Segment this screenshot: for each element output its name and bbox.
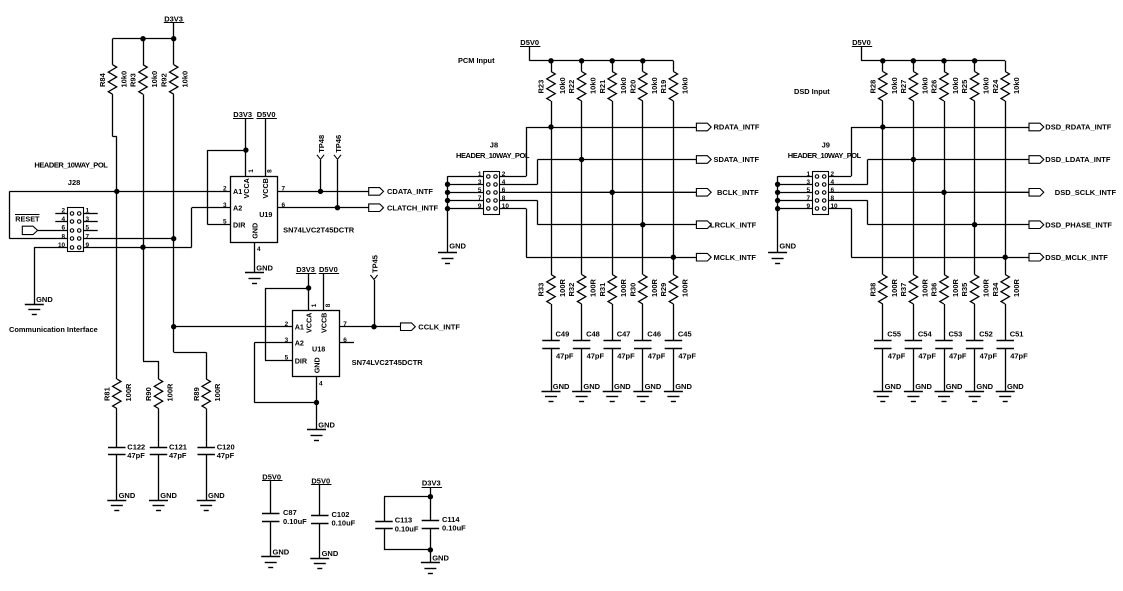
svg-text:A1: A1 — [295, 322, 304, 331]
svg-text:GND: GND — [553, 382, 570, 391]
svg-text:TP48: TP48 — [317, 135, 326, 153]
svg-text:C47: C47 — [617, 330, 631, 339]
svg-text:GND: GND — [885, 382, 902, 391]
svg-text:100R: 100R — [1012, 278, 1021, 297]
svg-text:SN74LVC2T45DCTR: SN74LVC2T45DCTR — [352, 358, 424, 367]
svg-text:GND: GND — [449, 242, 466, 251]
svg-text:RDATA_INTF: RDATA_INTF — [714, 123, 760, 132]
svg-text:D3V3: D3V3 — [233, 110, 252, 119]
svg-text:CCLK_INTF: CCLK_INTF — [418, 322, 460, 331]
svg-text:GND: GND — [583, 382, 600, 391]
svg-text:DSD_MCLK_INTF: DSD_MCLK_INTF — [1045, 253, 1108, 262]
svg-text:VCCB: VCCB — [319, 313, 328, 333]
svg-text:R31: R31 — [598, 283, 607, 297]
svg-text:DSD_LDATA_INTF: DSD_LDATA_INTF — [1045, 155, 1111, 164]
svg-text:100R: 100R — [650, 278, 659, 297]
svg-text:47pF: 47pF — [1010, 352, 1028, 361]
svg-text:C120: C120 — [217, 442, 235, 451]
svg-text:5: 5 — [223, 219, 227, 226]
svg-text:CDATA_INTF: CDATA_INTF — [387, 187, 433, 196]
svg-text:GND: GND — [256, 264, 273, 273]
svg-text:10k0: 10k0 — [951, 77, 960, 94]
svg-text:R38: R38 — [868, 283, 877, 297]
svg-text:D5V0: D5V0 — [520, 38, 539, 47]
svg-text:PCM Input: PCM Input — [458, 56, 495, 65]
svg-text:R21: R21 — [598, 80, 607, 94]
svg-text:Communication Interface: Communication Interface — [9, 325, 98, 334]
svg-text:4: 4 — [319, 380, 323, 387]
svg-text:GND: GND — [322, 549, 339, 558]
svg-text:10k0: 10k0 — [181, 71, 190, 88]
svg-text:SDATA_INTF: SDATA_INTF — [714, 155, 760, 164]
svg-text:GND: GND — [119, 491, 136, 500]
svg-text:GND: GND — [208, 491, 225, 500]
svg-text:R34: R34 — [991, 282, 1000, 297]
svg-text:VCCB: VCCB — [261, 178, 270, 198]
svg-text:D5V0: D5V0 — [257, 110, 276, 119]
svg-text:47pF: 47pF — [980, 352, 998, 361]
svg-text:R29: R29 — [659, 283, 668, 297]
svg-text:R89: R89 — [192, 387, 201, 401]
svg-text:DSD_RDATA_INTF: DSD_RDATA_INTF — [1045, 123, 1111, 132]
svg-text:100R: 100R — [589, 278, 598, 297]
svg-text:J9: J9 — [822, 141, 830, 150]
svg-text:0.10uF: 0.10uF — [332, 519, 356, 528]
svg-text:1: 1 — [311, 303, 318, 307]
svg-text:C53: C53 — [949, 330, 963, 339]
svg-text:47pF: 47pF — [556, 352, 574, 361]
svg-text:10k0: 10k0 — [619, 77, 628, 94]
svg-text:R27: R27 — [899, 80, 908, 94]
svg-text:R23: R23 — [537, 80, 546, 94]
svg-text:C45: C45 — [678, 330, 692, 339]
svg-text:10k0: 10k0 — [558, 77, 567, 94]
svg-text:TP45: TP45 — [370, 255, 379, 273]
svg-text:C87: C87 — [283, 508, 297, 517]
svg-text:47pF: 47pF — [888, 352, 906, 361]
svg-text:HEADER_10WAY_POL: HEADER_10WAY_POL — [788, 151, 862, 160]
svg-text:DIR: DIR — [295, 356, 308, 365]
svg-text:C55: C55 — [887, 330, 901, 339]
svg-text:BCLK_INTF: BCLK_INTF — [717, 188, 759, 197]
svg-text:GND: GND — [915, 382, 932, 391]
svg-text:7: 7 — [86, 233, 90, 240]
svg-text:0.10uF: 0.10uF — [283, 517, 307, 526]
svg-text:J28: J28 — [68, 178, 81, 187]
svg-text:GND: GND — [312, 357, 321, 373]
svg-text:10k0: 10k0 — [920, 77, 929, 94]
svg-text:47pF: 47pF — [587, 352, 605, 361]
svg-text:D3V3: D3V3 — [422, 479, 441, 488]
svg-text:C46: C46 — [647, 330, 661, 339]
svg-text:0.10uF: 0.10uF — [395, 524, 419, 533]
svg-text:10k0: 10k0 — [982, 77, 991, 94]
svg-text:10k0: 10k0 — [890, 77, 899, 94]
svg-text:TP46: TP46 — [334, 135, 343, 153]
svg-text:LRCLK_INTF: LRCLK_INTF — [710, 220, 757, 229]
svg-text:HEADER_10WAY_POL: HEADER_10WAY_POL — [34, 161, 108, 170]
svg-text:47pF: 47pF — [678, 352, 696, 361]
svg-text:5: 5 — [285, 355, 289, 362]
svg-text:GND: GND — [976, 382, 993, 391]
svg-text:100R: 100R — [951, 278, 960, 297]
svg-text:47pF: 47pF — [949, 352, 967, 361]
svg-text:C52: C52 — [979, 330, 993, 339]
svg-text:47pF: 47pF — [217, 451, 235, 460]
svg-text:R20: R20 — [628, 80, 637, 94]
svg-text:C121: C121 — [169, 442, 187, 451]
svg-text:R25: R25 — [960, 80, 969, 94]
svg-text:47pF: 47pF — [127, 451, 145, 460]
svg-text:D5V0: D5V0 — [852, 38, 871, 47]
svg-text:DIR: DIR — [233, 220, 246, 229]
svg-text:R36: R36 — [930, 283, 939, 297]
svg-text:A2: A2 — [233, 203, 242, 212]
svg-text:RESET: RESET — [15, 214, 40, 223]
svg-text:R24: R24 — [991, 79, 1000, 94]
svg-text:C51: C51 — [1010, 330, 1024, 339]
svg-text:R90: R90 — [144, 387, 153, 401]
svg-text:10k0: 10k0 — [120, 71, 129, 88]
svg-text:100R: 100R — [680, 278, 689, 297]
svg-text:GND: GND — [432, 554, 449, 563]
svg-text:47pF: 47pF — [918, 352, 936, 361]
svg-text:GND: GND — [273, 548, 290, 557]
svg-text:C102: C102 — [332, 510, 350, 519]
svg-text:DSD Input: DSD Input — [794, 87, 830, 96]
svg-text:GND: GND — [250, 223, 259, 239]
svg-text:R22: R22 — [567, 80, 576, 94]
svg-text:100R: 100R — [982, 278, 991, 297]
svg-text:SN74LVC2T45DCTR: SN74LVC2T45DCTR — [283, 226, 355, 235]
svg-text:GND: GND — [946, 382, 963, 391]
svg-text:GND: GND — [318, 421, 335, 430]
svg-text:C48: C48 — [586, 330, 600, 339]
svg-text:R30: R30 — [628, 283, 637, 297]
svg-text:A1: A1 — [233, 187, 242, 196]
svg-text:8: 8 — [325, 303, 332, 307]
svg-text:HEADER_10WAY_POL: HEADER_10WAY_POL — [456, 151, 530, 160]
svg-text:C113: C113 — [395, 516, 413, 525]
svg-text:D3V3: D3V3 — [296, 265, 315, 274]
svg-text:GND: GND — [779, 242, 796, 251]
svg-text:MCLK_INTF: MCLK_INTF — [714, 253, 757, 262]
svg-text:47pF: 47pF — [169, 451, 187, 460]
svg-text:100R: 100R — [213, 383, 222, 402]
svg-text:10k0: 10k0 — [589, 77, 598, 94]
svg-text:0.10uF: 0.10uF — [442, 524, 466, 533]
svg-text:R81: R81 — [102, 387, 111, 401]
svg-text:47pF: 47pF — [617, 352, 635, 361]
svg-text:GND: GND — [36, 295, 53, 304]
svg-text:U18: U18 — [312, 344, 325, 353]
svg-text:GND: GND — [1007, 382, 1024, 391]
svg-text:3: 3 — [285, 337, 289, 344]
svg-text:R19: R19 — [659, 80, 668, 94]
svg-text:C122: C122 — [127, 442, 145, 451]
svg-text:2: 2 — [285, 321, 289, 328]
svg-text:R84: R84 — [98, 72, 107, 87]
svg-text:R33: R33 — [537, 283, 546, 297]
svg-text:R92: R92 — [159, 73, 168, 87]
svg-text:C49: C49 — [556, 330, 570, 339]
svg-text:8: 8 — [267, 169, 274, 173]
svg-text:100R: 100R — [558, 278, 567, 297]
svg-text:10k0: 10k0 — [150, 71, 159, 88]
svg-text:A2: A2 — [295, 339, 304, 348]
svg-text:47pF: 47pF — [648, 352, 666, 361]
svg-text:100R: 100R — [124, 383, 133, 402]
svg-text:3: 3 — [223, 202, 227, 209]
svg-text:R93: R93 — [129, 73, 138, 87]
svg-text:D5V0: D5V0 — [319, 265, 338, 274]
svg-text:DSD_SCLK_INTF: DSD_SCLK_INTF — [1055, 188, 1117, 197]
svg-text:10k0: 10k0 — [1012, 77, 1021, 94]
svg-text:R37: R37 — [899, 283, 908, 297]
svg-text:R28: R28 — [868, 80, 877, 94]
svg-text:100R: 100R — [920, 278, 929, 297]
svg-text:10k0: 10k0 — [650, 77, 659, 94]
svg-text:R32: R32 — [567, 283, 576, 297]
svg-text:100R: 100R — [890, 278, 899, 297]
svg-text:VCCA: VCCA — [242, 178, 251, 198]
svg-text:VCCA: VCCA — [305, 313, 314, 333]
svg-text:U19: U19 — [259, 210, 272, 219]
svg-text:J8: J8 — [490, 141, 498, 150]
svg-text:8: 8 — [62, 233, 66, 240]
svg-text:10k0: 10k0 — [680, 77, 689, 94]
svg-text:R26: R26 — [930, 80, 939, 94]
svg-text:GND: GND — [645, 382, 662, 391]
svg-text:GND: GND — [160, 491, 177, 500]
svg-text:GND: GND — [614, 382, 631, 391]
svg-text:C54: C54 — [918, 330, 933, 339]
svg-text:100R: 100R — [619, 278, 628, 297]
svg-text:4: 4 — [257, 246, 261, 253]
svg-text:R35: R35 — [960, 283, 969, 297]
svg-text:DSD_PHASE_INTF: DSD_PHASE_INTF — [1045, 220, 1112, 229]
svg-text:GND: GND — [675, 382, 692, 391]
svg-text:100R: 100R — [166, 383, 175, 402]
svg-text:CLATCH_INTF: CLATCH_INTF — [387, 203, 439, 212]
svg-text:1: 1 — [248, 169, 255, 173]
svg-text:2: 2 — [223, 186, 227, 193]
